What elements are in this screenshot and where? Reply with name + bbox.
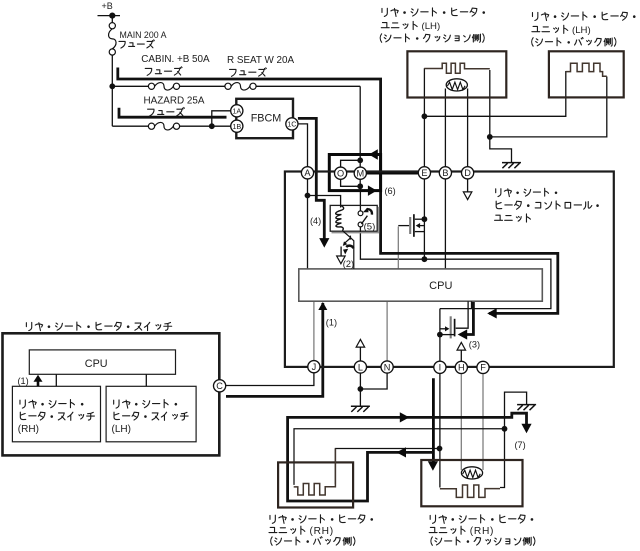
- wire N bottom jog: [360, 373, 387, 389]
- svg-text:(LH): (LH): [112, 424, 131, 435]
- box heater unit LH cushion: [407, 51, 506, 97]
- label heater unit LH back: [532, 12, 635, 21]
- svg-text:(5): (5): [364, 221, 376, 232]
- svg-text:(LH): (LH): [422, 21, 441, 32]
- wire H down to thermistor gray: [460, 373, 462, 470]
- wire +B tick bar: [98, 15, 121, 17]
- wire F down to thermistor gray: [482, 373, 484, 470]
- wire RH cushion heater right terminal: [500, 429, 505, 488]
- svg-text:H: H: [458, 363, 465, 373]
- svg-text:D: D: [464, 168, 471, 178]
- pin J control unit: [308, 361, 320, 373]
- svg-text:(4): (4): [310, 216, 321, 226]
- box switch LH: [106, 386, 196, 442]
- resistor heater element RH back: [294, 449, 336, 496]
- relay power box O M thick: [329, 155, 380, 191]
- svg-text:F: F: [480, 363, 486, 373]
- box heater unit RH cushion: [421, 460, 522, 506]
- ground RH units: [517, 404, 536, 406]
- node dot +B/y86: [109, 83, 115, 89]
- transistor relay driver: [342, 231, 353, 269]
- svg-text:(2): (2): [343, 259, 354, 269]
- arrow (7) down into RH cushion unit: [428, 461, 438, 471]
- wire L down to ground: [359, 373, 361, 406]
- pin 1B FBCM: [231, 120, 243, 132]
- svg-text:CABIN. +B 50A: CABIN. +B 50A: [141, 54, 210, 65]
- box CPU control unit: [299, 269, 543, 301]
- node dot above M: [357, 157, 363, 163]
- wire RH ground up: [505, 392, 527, 429]
- pin N control unit: [381, 361, 393, 373]
- wire fuse row y86 CABIN/R-SEAT: [112, 85, 148, 87]
- wire H stub up: [460, 350, 462, 362]
- node dot below A: [305, 193, 311, 199]
- arrow (6) out of relay box: [368, 185, 377, 196]
- wire O M bottom bracket: [341, 179, 361, 186]
- wire D up to thermistor: [467, 89, 469, 167]
- svg-text:+B: +B: [102, 1, 113, 11]
- svg-text:(1): (1): [326, 318, 337, 328]
- node dot I branch: [437, 446, 443, 452]
- svg-text:R SEAT W 20A: R SEAT W 20A: [227, 55, 295, 66]
- svg-text:I: I: [439, 363, 442, 373]
- pin H control unit: [455, 361, 467, 373]
- node dot below M: [357, 183, 363, 189]
- wire I branch to RH back heater gray: [335, 449, 439, 485]
- arrow (1) up into CPU: [318, 302, 327, 310]
- node +B junction dot: [109, 13, 115, 19]
- fuse MAIN 200 A: [109, 23, 115, 29]
- arrow open triangle above H: [457, 342, 466, 350]
- resistor heater element LH back: [566, 63, 607, 76]
- pin L control unit: [354, 361, 366, 373]
- pin B control unit: [439, 167, 451, 179]
- wire +B feed vertical: [111, 16, 113, 23]
- wire switch RH to CPU: [55, 374, 57, 386]
- wire FBCM 1A loop: [212, 111, 231, 126]
- pin D control unit: [462, 167, 474, 179]
- label control unit: [496, 188, 558, 196]
- wire E up to LH cushion heater: [423, 116, 425, 167]
- wire B down to CPU: [444, 179, 446, 269]
- label heater unit LH cushion: [382, 8, 485, 17]
- fuse HAZARD 25A: [148, 123, 154, 129]
- node dot LH ground junction: [487, 134, 493, 140]
- svg-text:(7): (7): [515, 440, 526, 450]
- wire MOSFET1 gate to CPU gray: [397, 227, 399, 269]
- wire J up to CPU gray: [313, 301, 315, 360]
- arrow (6) into relay box: [369, 149, 378, 160]
- relay switch contacts: [358, 211, 363, 216]
- label heater unit RH cushion: [430, 515, 533, 524]
- wire E-dot to LH back heater: [424, 71, 565, 116]
- wire thick CABIN +B 50A power path: [118, 68, 558, 314]
- svg-text:L: L: [358, 362, 363, 372]
- fuse CABIN +B 50A: [148, 83, 154, 89]
- svg-text:1B: 1B: [232, 122, 241, 131]
- arrow open triangle above L: [356, 339, 365, 347]
- wire M-dot down to relay switch: [359, 186, 361, 210]
- wire switch LH to CPU: [145, 374, 147, 386]
- ground control unit: [351, 405, 370, 407]
- svg-text:(3): (3): [469, 340, 480, 350]
- svg-text:1C: 1C: [287, 120, 296, 129]
- svg-text:(RH): (RH): [310, 526, 334, 537]
- box heater switch unit: [3, 333, 220, 455]
- svg-text:FBCM: FBCM: [251, 112, 282, 124]
- pin C switch unit: [214, 380, 226, 392]
- node dot RH ground junction: [502, 426, 508, 432]
- wire fuse row y126 HAZARD to FBCM 1B: [112, 125, 148, 127]
- wire thick M to E power: [366, 172, 419, 175]
- svg-text:O: O: [337, 169, 344, 179]
- arrow open triangle below D: [463, 192, 472, 200]
- arrow (3) left into FET: [458, 329, 468, 339]
- wire thick (7) path down to RH cushion heater: [432, 378, 435, 462]
- label switch LH: [114, 400, 178, 409]
- box heater unit RH back: [278, 462, 353, 507]
- wire thick (4) path from FBCM 1C: [298, 118, 324, 239]
- svg-text:(1): (1): [18, 376, 29, 386]
- wire FBCM 1C to A: [298, 124, 308, 167]
- svg-text:CPU: CPU: [429, 280, 452, 292]
- box relay: [330, 205, 377, 231]
- pin 1C FBCM: [286, 118, 298, 130]
- svg-text:CPU: CPU: [85, 358, 108, 370]
- wire thick (7) branch to RH back heater: [288, 413, 527, 501]
- transistor MOSFET2 heater RH driver: [450, 316, 452, 338]
- wire N up to CPU gray: [386, 301, 388, 361]
- wire I down to RH cushion heater: [439, 373, 441, 487]
- box control unit リヤ・シート・ヒータ・コントロール・ユニット: [285, 172, 614, 367]
- label switch RH: [20, 400, 84, 409]
- svg-text:N: N: [384, 362, 391, 372]
- svg-text:(RH): (RH): [18, 424, 39, 435]
- wire A-dot to relay coil: [308, 196, 341, 208]
- wire B up to thermistor: [444, 89, 446, 167]
- thermistor RH cushion: [461, 467, 482, 479]
- arrow open triangle transistor out: [337, 256, 346, 264]
- node dot 1A/1B junction: [209, 123, 215, 129]
- node dot E branch: [422, 113, 428, 119]
- wire thick (3) path CPU to FET: [467, 302, 473, 335]
- arrow (3) feed left: [487, 308, 497, 318]
- svg-text:J: J: [312, 362, 317, 372]
- pin 1A FBCM: [231, 105, 243, 117]
- svg-text:A: A: [304, 168, 311, 178]
- wire relay switch to gate loop: [360, 226, 551, 309]
- arrow (7) down at right: [521, 424, 531, 434]
- arrow (4) down: [319, 238, 329, 248]
- wire LH heaters ground net: [490, 70, 512, 162]
- svg-text:(6): (6): [385, 186, 396, 196]
- svg-text:MAIN 200 A: MAIN 200 A: [120, 30, 167, 40]
- svg-text:B: B: [442, 168, 448, 178]
- ground LH units: [502, 162, 521, 164]
- arrow (7) right: [400, 412, 410, 422]
- pin O control unit: [335, 167, 347, 179]
- relay switch blade: [361, 216, 367, 224]
- label heater switch title: [26, 322, 171, 331]
- pin F control unit: [477, 361, 489, 373]
- pin I control unit: [434, 361, 446, 373]
- box heater unit LH back: [549, 51, 624, 97]
- wire O M top bracket: [341, 160, 361, 167]
- wire A down to CPU: [307, 179, 309, 269]
- pin E control unit: [418, 167, 430, 179]
- thermistor LH cushion: [446, 79, 467, 91]
- arrow (5) relay action curved: [367, 209, 372, 214]
- wire L stub up: [359, 347, 361, 361]
- resistor heater element LH cushion: [424, 63, 490, 73]
- wire LH back heater right terminal: [490, 77, 607, 137]
- label heater unit RH back: [270, 515, 373, 524]
- svg-text:(LH): (LH): [572, 25, 591, 36]
- box FBCM: [236, 99, 293, 138]
- svg-text:(RH): (RH): [470, 526, 494, 537]
- box CPU switch: [29, 350, 175, 374]
- svg-text:E: E: [421, 168, 427, 178]
- wire thick (1) path from C to CPU: [226, 303, 323, 396]
- wire thick HAZARD 25A power path: [119, 108, 227, 117]
- node dot L/N ground: [358, 386, 364, 392]
- pin M control unit: [354, 167, 366, 179]
- wire J down to C: [225, 373, 314, 386]
- pin A control unit: [301, 167, 313, 179]
- resistor heater element RH cushion: [440, 485, 500, 497]
- svg-text:HAZARD 25A: HAZARD 25A: [144, 96, 205, 107]
- wire RH ground branch to RH back heater gray: [294, 429, 505, 485]
- svg-text:1A: 1A: [232, 106, 241, 115]
- svg-text:M: M: [356, 169, 364, 179]
- arrow (2) transistor action curved: [346, 246, 353, 249]
- fuse R SEAT W 20A: [225, 83, 231, 89]
- box switch RH: [12, 386, 100, 442]
- arrow (1) switch internal: [37, 377, 40, 386]
- svg-text:C: C: [216, 381, 223, 391]
- relay coil: [336, 205, 344, 230]
- transistor MOSFET1 heater LH driver: [409, 217, 411, 234]
- arrow to RH back heater left: [397, 447, 407, 457]
- wire D down stub: [467, 179, 469, 194]
